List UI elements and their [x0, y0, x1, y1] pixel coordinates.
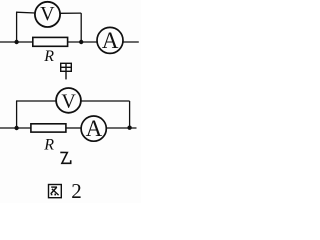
resistor R (top circuit)	[33, 37, 68, 46]
label 图 (figure caption character, drawn glyph)	[49, 185, 62, 198]
resistor R (bottom circuit)	[31, 124, 66, 132]
wire : top circuit voltmeter branch top-right horizontal	[60, 12, 81, 14]
ammeter A (bottom circuit)	[81, 116, 106, 141]
svg-text:R: R	[43, 136, 54, 153]
wire : bottom circuit voltmeter branch top-left horizontal	[16, 100, 56, 102]
label 甲 (top circuit caption, drawn glyph)	[61, 63, 72, 79]
wire : top circuit resistor to ammeter	[68, 41, 98, 43]
node : top circuit right junction dot	[79, 40, 83, 44]
node : bottom circuit left junction dot	[14, 126, 18, 130]
svg-text:R: R	[43, 48, 54, 65]
svg-text:2: 2	[71, 179, 82, 203]
wire : bottom circuit voltmeter branch left vertical	[16, 101, 18, 128]
wire : top circuit right main segment	[123, 41, 139, 43]
wire : top circuit left main segment	[0, 41, 33, 43]
voltmeter V (top circuit)	[35, 2, 60, 27]
voltmeter V (bottom circuit)	[56, 88, 81, 113]
wire : bottom circuit voltmeter branch top-right horizontal	[81, 100, 130, 102]
wire : bottom circuit right main segment	[106, 127, 136, 129]
wire : bottom circuit voltmeter branch right vertical	[129, 101, 131, 128]
wire : top circuit voltmeter branch top-left horizontal	[16, 11, 35, 14]
svg-text:V: V	[40, 3, 55, 25]
node : bottom circuit right junction dot	[127, 126, 131, 130]
ammeter A (top circuit)	[97, 27, 123, 53]
label 乙 (bottom circuit caption, drawn glyph)	[60, 152, 70, 163]
svg-text:V: V	[61, 90, 76, 112]
wire : bottom circuit resistor to ammeter	[66, 127, 82, 129]
wire : top circuit voltmeter branch right vertical	[80, 13, 82, 42]
wire : top circuit voltmeter branch left vertical	[16, 12, 18, 42]
node : top circuit left junction dot	[14, 40, 18, 44]
wire : bottom circuit left main segment	[0, 127, 31, 129]
svg-text:A: A	[86, 116, 103, 141]
svg-text:A: A	[102, 28, 119, 53]
